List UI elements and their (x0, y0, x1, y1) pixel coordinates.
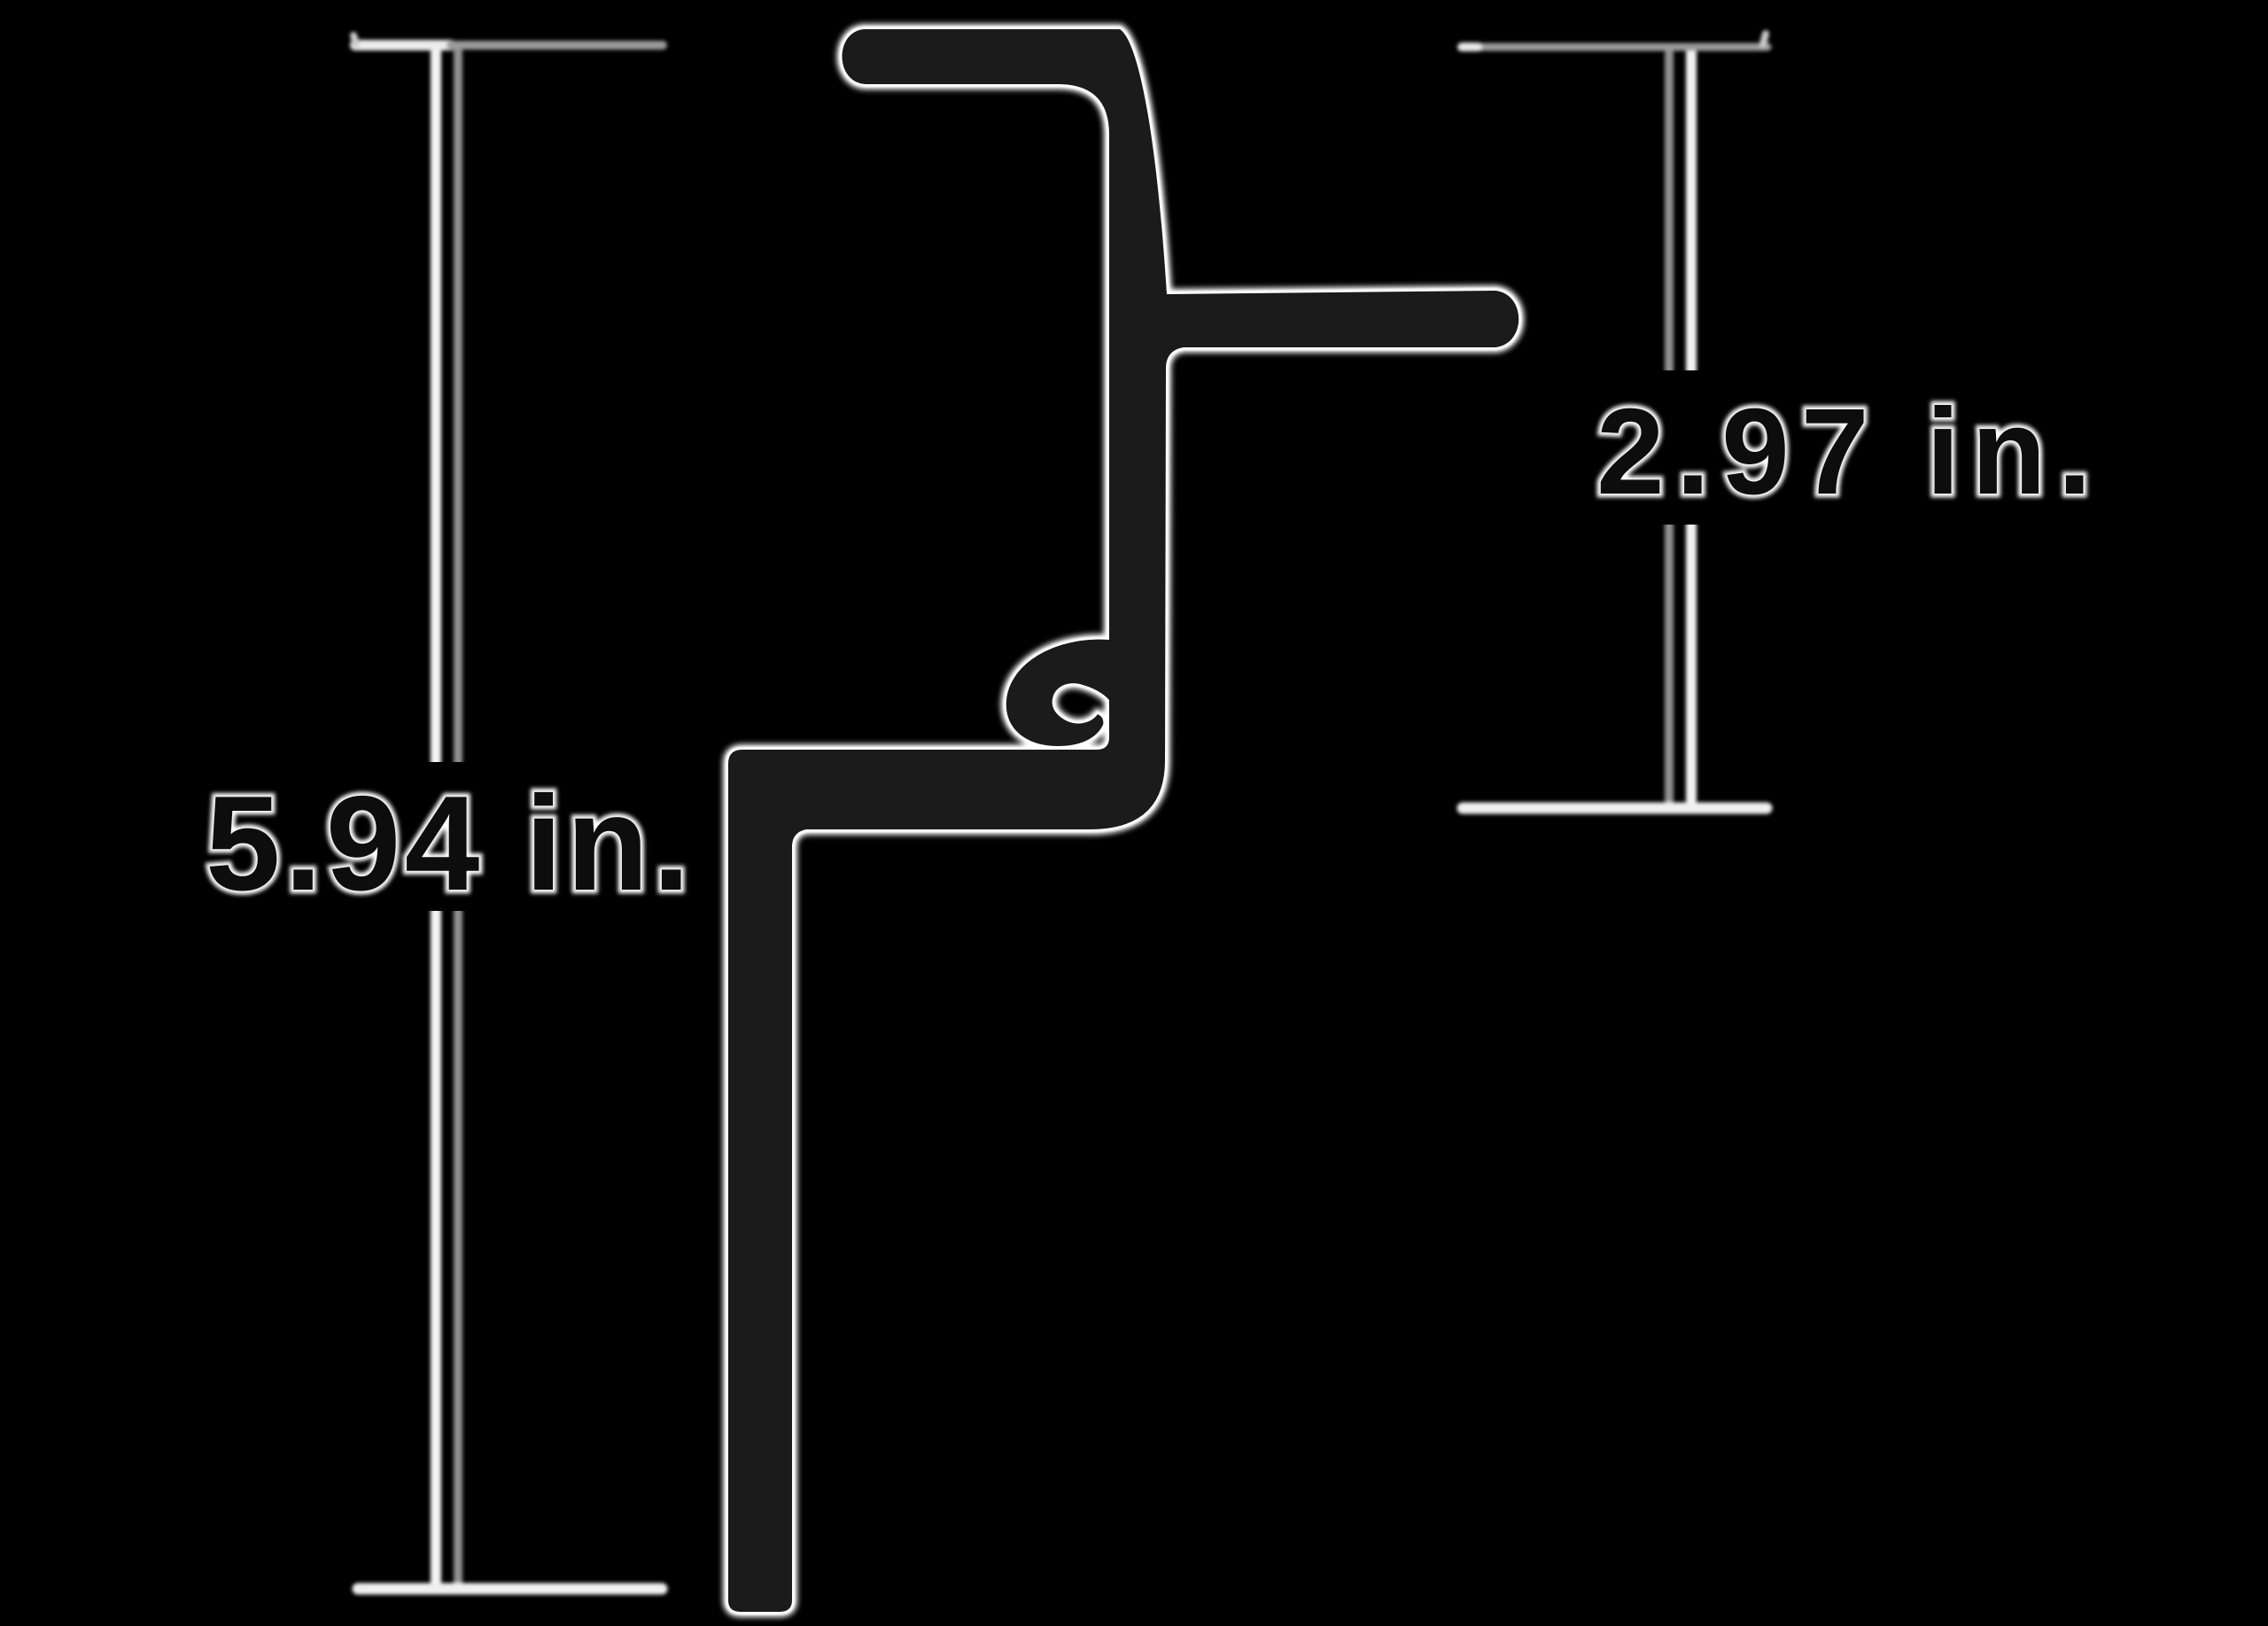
profile outline upper-inner (842, 29, 1109, 636)
left dim: bottom serif (358, 1583, 662, 1595)
svg-text:5.94 in.: 5.94 in. (206, 768, 694, 919)
right dim: top serif bright left tip (1462, 43, 1478, 51)
dimension line left (5.94 in.) (353, 35, 663, 1589)
profile outline main (728, 29, 1518, 1612)
extrusion profile halo (white outline glow) (728, 29, 1518, 1612)
label 2.97 in. (1596, 384, 2103, 520)
right dim: gray band lower segment (1665, 525, 1674, 800)
label 5.94 in. (206, 768, 694, 919)
right dim: gray band upper segment (1665, 53, 1674, 370)
profile outline upper-inner crisp (842, 29, 1109, 636)
left dim: gray band upper segment (454, 51, 462, 763)
left dim: top serif bright part (355, 40, 451, 51)
right dim: top serif (1462, 43, 1767, 51)
curl outline crisp (1006, 640, 1109, 746)
text mask right (1581, 370, 2098, 525)
curl outline (1006, 640, 1109, 746)
left dim: white band upper segment (431, 51, 441, 763)
right dim: white band lower segment (1686, 525, 1697, 800)
left dim: top serif dim part (451, 41, 663, 50)
profile outline main crisp (728, 29, 1518, 1612)
text mask left (186, 762, 704, 911)
profile body fill (728, 29, 1518, 1612)
left dim: top serif end curl (353, 35, 356, 44)
right dim: bottom serif (1463, 803, 1767, 814)
dimension line right (2.97 in.) (1462, 34, 1767, 808)
left dim: gray band lower segment (454, 909, 462, 1585)
extrusion profile dark fill (728, 29, 1518, 1612)
left dim: white band lower segment (431, 909, 441, 1585)
svg-text:2.97 in.: 2.97 in. (1596, 384, 2103, 520)
right dim: top serif end curl (1763, 34, 1766, 44)
curl fill (1006, 640, 1109, 746)
right dim: white band upper segment (1686, 53, 1697, 370)
extrusion profile crisp outline pass (728, 29, 1518, 1612)
